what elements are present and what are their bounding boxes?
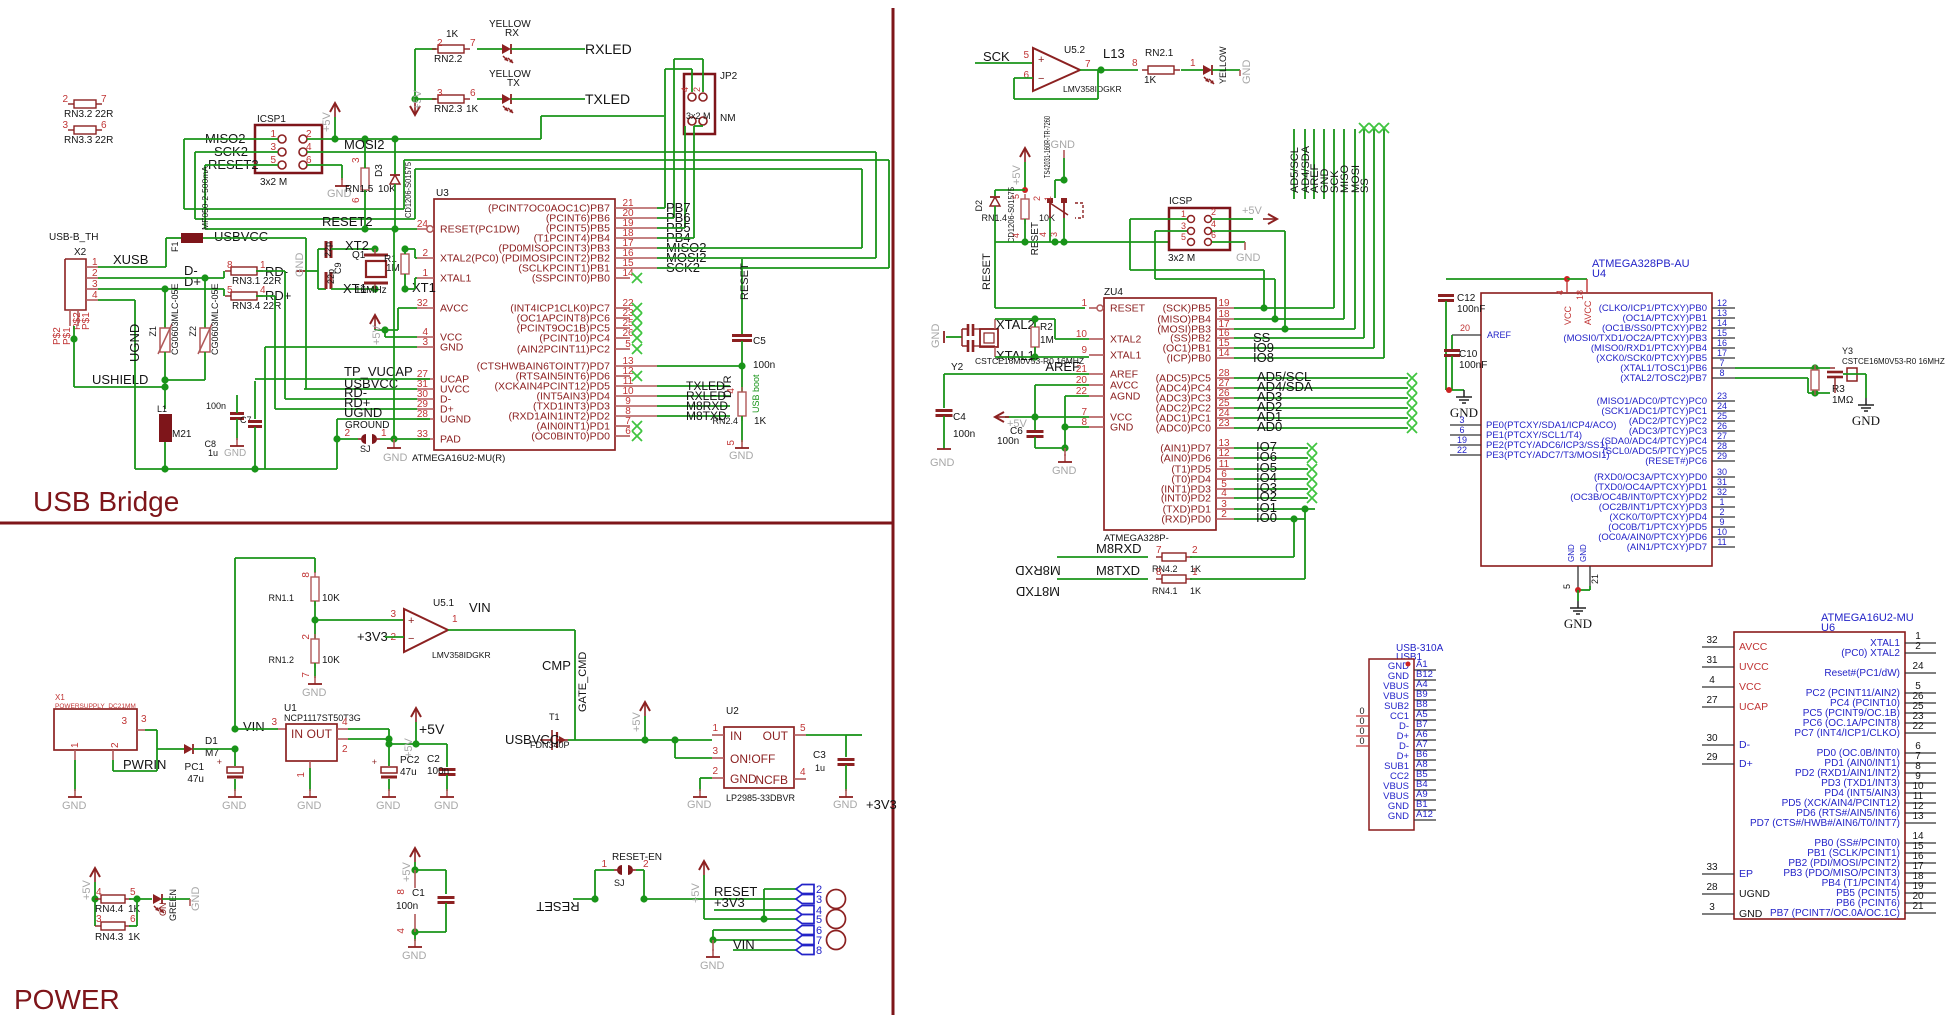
svg-text:RESET-EN: RESET-EN: [612, 852, 662, 863]
svg-text:4: 4: [96, 887, 102, 898]
svg-text:GND: GND: [376, 800, 401, 812]
svg-text:5: 5: [1562, 584, 1572, 589]
svg-text:2: 2: [1211, 207, 1216, 217]
svg-text:GND: GND: [1739, 908, 1763, 920]
svg-text:C2: C2: [427, 754, 440, 765]
svg-text:6: 6: [1023, 70, 1029, 81]
svg-text:GND: GND: [729, 450, 754, 462]
svg-text:GATE_CMD: GATE_CMD: [577, 652, 589, 712]
svg-text:SCK: SCK: [983, 49, 1010, 64]
svg-text:(AIN2PCINT11)PC2: (AIN2PCINT11)PC2: [517, 344, 610, 356]
svg-text:M8TXD: M8TXD: [1016, 584, 1060, 599]
svg-text:VIN: VIN: [243, 719, 265, 734]
svg-text:IO0: IO0: [1256, 510, 1277, 525]
svg-text:1: 1: [1192, 567, 1198, 578]
svg-text:8: 8: [227, 260, 233, 271]
svg-text:RN2.3: RN2.3: [434, 104, 463, 115]
svg-text:6: 6: [470, 88, 476, 99]
svg-text:23: 23: [1218, 418, 1230, 429]
svg-text:UGND: UGND: [344, 405, 382, 420]
svg-text:POWER: POWER: [14, 984, 120, 1015]
svg-text:100n: 100n: [396, 901, 418, 912]
svg-text:GND: GND: [930, 324, 942, 349]
svg-text:26: 26: [1717, 421, 1727, 431]
svg-text:RN2.4: RN2.4: [712, 416, 738, 426]
svg-text:(XTAL2/TOSC2)PB7: (XTAL2/TOSC2)PB7: [1620, 373, 1707, 384]
svg-text:10K: 10K: [322, 593, 340, 604]
svg-text:GND: GND: [297, 800, 322, 812]
svg-text:M8RXD: M8RXD: [1096, 541, 1142, 556]
svg-text:GROUND: GROUND: [345, 420, 389, 431]
svg-text:3: 3: [351, 157, 362, 163]
svg-text:2: 2: [342, 744, 348, 755]
svg-text:UGND: UGND: [440, 414, 471, 426]
svg-text:GND: GND: [1236, 252, 1261, 264]
svg-text:+3V3: +3V3: [714, 895, 745, 910]
svg-text:ATMEGA328PB-AU: ATMEGA328PB-AU: [1592, 258, 1690, 270]
svg-text:GND: GND: [402, 950, 427, 962]
svg-text:JP2: JP2: [720, 71, 738, 82]
svg-text:1: 1: [92, 257, 98, 268]
svg-text:4: 4: [342, 717, 348, 728]
svg-text:20: 20: [1460, 323, 1470, 333]
svg-text:+5V: +5V: [401, 861, 413, 882]
svg-text:16MHz: 16MHz: [355, 285, 387, 296]
svg-text:USHIELD: USHIELD: [92, 372, 148, 387]
svg-text:2: 2: [1221, 509, 1227, 520]
svg-text:ATMEGA16U2-MU(R): ATMEGA16U2-MU(R): [412, 453, 505, 464]
svg-text:GND: GND: [302, 687, 327, 699]
svg-text:100n: 100n: [953, 429, 975, 440]
svg-text:+5V: +5V: [81, 879, 93, 900]
svg-text:32: 32: [1717, 487, 1727, 497]
svg-text:+: +: [408, 615, 414, 627]
svg-text:3x2 M: 3x2 M: [686, 111, 711, 121]
svg-text:2: 2: [110, 742, 121, 748]
svg-text:1: 1: [601, 859, 607, 870]
svg-text:24: 24: [1912, 661, 1924, 672]
svg-text:AREF: AREF: [1487, 330, 1512, 340]
svg-text:OUT: OUT: [763, 729, 789, 743]
svg-text:16: 16: [1717, 338, 1727, 348]
svg-text:RESET(PC1DW): RESET(PC1DW): [440, 224, 520, 236]
svg-text:AD0: AD0: [1257, 419, 1282, 434]
svg-text:+3V3: +3V3: [357, 629, 388, 644]
svg-text:33: 33: [1706, 862, 1718, 873]
svg-text:7: 7: [1085, 59, 1091, 70]
svg-text:D+: D+: [1739, 758, 1753, 770]
svg-text:3x2 M: 3x2 M: [260, 177, 287, 188]
svg-text:T1: T1: [549, 712, 560, 722]
svg-text:PD7 (CTS#/HWB#/AIN6/T0/INT7): PD7 (CTS#/HWB#/AIN6/T0/INT7): [1750, 818, 1900, 829]
svg-text:−: −: [408, 633, 414, 645]
svg-text:GND: GND: [930, 457, 955, 469]
svg-text:TP_VUCAP: TP_VUCAP: [344, 364, 413, 379]
svg-text:C10: C10: [1459, 349, 1478, 360]
svg-text:100nF: 100nF: [1459, 360, 1487, 371]
svg-text:+: +: [1038, 54, 1044, 66]
svg-text:1u: 1u: [815, 763, 825, 773]
svg-text:1M: 1M: [386, 263, 400, 274]
svg-text:RN4.1: RN4.1: [1152, 586, 1178, 596]
svg-text:M8RXD: M8RXD: [1015, 563, 1061, 578]
svg-text:29: 29: [1717, 451, 1727, 461]
svg-text:−: −: [1038, 73, 1044, 85]
svg-text:2: 2: [437, 38, 443, 49]
svg-text:1: 1: [296, 772, 307, 778]
svg-text:4: 4: [726, 388, 737, 394]
svg-text:1: 1: [1190, 58, 1196, 69]
svg-text:U4: U4: [1592, 268, 1606, 280]
svg-text:5: 5: [1181, 232, 1186, 242]
svg-text:PC2: PC2: [400, 755, 420, 766]
svg-text:RN1.4: RN1.4: [981, 213, 1007, 223]
svg-text:1K: 1K: [446, 29, 459, 40]
svg-text:USB boot: USB boot: [751, 374, 761, 413]
svg-text:8: 8: [396, 889, 407, 895]
svg-text:28: 28: [1717, 441, 1727, 451]
svg-text:SJ: SJ: [614, 878, 625, 888]
svg-text:Y3: Y3: [1842, 346, 1853, 356]
svg-text:28: 28: [1706, 882, 1718, 893]
svg-text:RESET: RESET: [739, 263, 751, 300]
svg-text:4: 4: [1555, 290, 1565, 295]
svg-text:1: 1: [1081, 298, 1087, 309]
svg-text:DTR: DTR: [722, 375, 734, 398]
svg-text:RN3.3: RN3.3: [64, 135, 93, 146]
svg-text:M21: M21: [172, 429, 192, 440]
svg-text:RESET: RESET: [1110, 303, 1146, 315]
svg-text:NM: NM: [720, 113, 736, 124]
svg-text:RN3.4: RN3.4: [232, 301, 261, 312]
svg-text:GND: GND: [222, 800, 247, 812]
svg-text:C3: C3: [813, 750, 826, 761]
svg-text:AGND: AGND: [1110, 391, 1141, 403]
svg-text:0: 0: [1359, 736, 1364, 746]
svg-text:2: 2: [422, 248, 428, 259]
svg-text:32: 32: [417, 298, 429, 309]
svg-text:MF050-2-500mA: MF050-2-500mA: [200, 166, 210, 230]
svg-text:2: 2: [712, 766, 718, 777]
svg-text:3x2 M: 3x2 M: [1168, 253, 1195, 264]
svg-text:CSTCE16M0V53-R0 16MHZ: CSTCE16M0V53-R0 16MHZ: [1842, 357, 1945, 366]
svg-text:3: 3: [121, 716, 127, 727]
svg-text:3: 3: [1709, 902, 1715, 913]
svg-text:GND: GND: [1052, 465, 1077, 477]
svg-text:4: 4: [680, 87, 690, 92]
svg-text:8: 8: [301, 572, 312, 578]
svg-text:TX: TX: [507, 78, 520, 89]
svg-text:100n: 100n: [997, 436, 1019, 447]
svg-text:R2: R2: [1040, 322, 1053, 333]
svg-text:0: 0: [1359, 706, 1364, 716]
svg-text:4: 4: [1709, 675, 1715, 686]
svg-text:NCP1117ST50T3G: NCP1117ST50T3G: [284, 713, 361, 723]
svg-text:4: 4: [1221, 488, 1227, 499]
svg-text:(OC0BINT0)PD0: (OC0BINT0)PD0: [531, 431, 610, 443]
svg-text:22R: 22R: [95, 135, 113, 146]
svg-text:18: 18: [1575, 290, 1585, 300]
svg-text:+5V: +5V: [631, 711, 643, 732]
svg-text:8: 8: [816, 945, 822, 957]
svg-text:SS: SS: [1359, 178, 1371, 193]
svg-text:1: 1: [1181, 209, 1186, 219]
svg-text:4: 4: [800, 767, 806, 778]
svg-text:U2: U2: [726, 706, 739, 717]
svg-text:+: +: [372, 757, 377, 767]
svg-text:30: 30: [1706, 733, 1718, 744]
svg-text:XTAL2(PC0): XTAL2(PC0): [440, 253, 499, 265]
svg-text:22p: 22p: [323, 242, 333, 257]
svg-text:XTAL2: XTAL2: [1110, 334, 1141, 346]
svg-text:PE3(PTCY/ADC7/T3/MOSI1): PE3(PTCY/ADC7/T3/MOSI1): [1486, 450, 1610, 461]
svg-text:12: 12: [1717, 298, 1727, 308]
svg-text:ZU4: ZU4: [1104, 287, 1123, 298]
svg-text:U5.1: U5.1: [433, 598, 455, 609]
svg-text:2: 2: [92, 268, 98, 279]
svg-text:CG0603MLC-05E: CG0603MLC-05E: [170, 283, 180, 355]
svg-text:GND: GND: [383, 452, 408, 464]
svg-text:3: 3: [62, 120, 68, 131]
svg-text:A12: A12: [1416, 809, 1433, 820]
svg-text:(RXD)PD0: (RXD)PD0: [1161, 514, 1211, 526]
svg-text:3: 3: [422, 337, 428, 348]
svg-text:RN1.5: RN1.5: [345, 184, 374, 195]
svg-text:C12: C12: [1457, 293, 1476, 304]
svg-text:D2: D2: [974, 200, 984, 212]
svg-text:C9: C9: [333, 262, 343, 274]
svg-text:IO8: IO8: [1253, 350, 1274, 365]
svg-text:RN2.2: RN2.2: [434, 54, 463, 65]
svg-text:F1: F1: [170, 241, 180, 252]
svg-text:1: 1: [1719, 497, 1724, 507]
svg-text:8: 8: [1719, 368, 1724, 378]
svg-text:GND: GND: [440, 342, 464, 354]
svg-text:U5.2: U5.2: [1064, 45, 1086, 56]
svg-text:GND: GND: [190, 887, 202, 912]
svg-text:(ICP)PB0: (ICP)PB0: [1167, 353, 1212, 365]
svg-text:12: 12: [1218, 448, 1230, 459]
svg-text:YELLOW: YELLOW: [1218, 46, 1228, 84]
svg-text:10K: 10K: [378, 184, 396, 195]
svg-text:3: 3: [390, 609, 396, 620]
svg-text:D-: D-: [1739, 739, 1751, 751]
svg-text:RN4.3: RN4.3: [95, 932, 124, 943]
svg-text:5: 5: [227, 285, 233, 296]
svg-text:P$1: P$1: [81, 312, 92, 330]
svg-text:PC1: PC1: [185, 762, 205, 773]
svg-text:22: 22: [1457, 445, 1467, 455]
svg-text:2: 2: [62, 94, 68, 105]
svg-text:7: 7: [101, 94, 107, 105]
svg-text:25: 25: [1717, 411, 1727, 421]
svg-text:30: 30: [1717, 467, 1727, 477]
svg-text:4: 4: [396, 928, 407, 934]
svg-text:TS42031-160R-TR-7260: TS42031-160R-TR-7260: [1043, 116, 1052, 178]
svg-text:0: 0: [1359, 726, 1364, 736]
svg-text:+: +: [217, 757, 222, 767]
svg-text:24: 24: [1717, 401, 1727, 411]
svg-text:22: 22: [1912, 721, 1924, 732]
svg-text:AVCC: AVCC: [440, 303, 469, 315]
svg-text:GND: GND: [1567, 544, 1576, 562]
svg-text:CMP: CMP: [542, 658, 571, 673]
svg-text:5: 5: [1023, 50, 1029, 61]
svg-text:14: 14: [1717, 318, 1727, 328]
svg-text:GND: GND: [1110, 422, 1134, 434]
svg-text:RX: RX: [505, 28, 519, 39]
svg-text:100n: 100n: [206, 401, 226, 411]
svg-text:GND: GND: [62, 800, 87, 812]
svg-text:GND: GND: [833, 799, 858, 811]
svg-text:3: 3: [271, 717, 277, 728]
svg-text:100n: 100n: [427, 766, 449, 777]
svg-text:2: 2: [301, 634, 312, 640]
svg-text:3: 3: [712, 746, 718, 757]
svg-text:6: 6: [1459, 425, 1464, 435]
svg-text:4: 4: [1211, 219, 1216, 229]
svg-text:ICSP: ICSP: [1169, 196, 1193, 207]
svg-text:D1: D1: [205, 736, 218, 747]
svg-text:27: 27: [1706, 695, 1718, 706]
svg-text:15: 15: [1717, 328, 1727, 338]
svg-text:ON!OFF: ON!OFF: [730, 752, 775, 766]
svg-text:GND: GND: [687, 799, 712, 811]
svg-text:RN3.2: RN3.2: [64, 109, 93, 120]
svg-text:GND: GND: [434, 800, 459, 812]
svg-text:USB-B_TH: USB-B_TH: [49, 232, 98, 243]
svg-text:13: 13: [1912, 811, 1924, 822]
svg-text:(PC0) XTAL2: (PC0) XTAL2: [1841, 648, 1900, 659]
svg-text:XUSB: XUSB: [113, 252, 148, 267]
svg-text:PWRIN: PWRIN: [123, 757, 166, 772]
svg-text:23: 23: [1717, 391, 1727, 401]
svg-text:1MΩ: 1MΩ: [1832, 395, 1854, 406]
svg-text:13: 13: [1717, 308, 1727, 318]
svg-text:L1: L1: [157, 404, 167, 414]
svg-text:USB Bridge: USB Bridge: [33, 486, 179, 517]
svg-text:LMV358IDGKR: LMV358IDGKR: [1063, 84, 1122, 94]
svg-text:2: 2: [1032, 196, 1042, 201]
svg-text:AVCC: AVCC: [1739, 641, 1768, 653]
svg-text:19: 19: [1457, 435, 1467, 445]
svg-text:1K: 1K: [128, 932, 141, 943]
svg-text:VIN: VIN: [469, 600, 491, 615]
svg-text:GND: GND: [1051, 139, 1076, 151]
svg-text:(RESET#)PC6: (RESET#)PC6: [1645, 456, 1707, 467]
svg-text:1: 1: [70, 742, 81, 748]
svg-text:Reset#(PC1/dW): Reset#(PC1/dW): [1824, 668, 1900, 679]
svg-text:LP2985-33DBVR: LP2985-33DBVR: [726, 793, 796, 803]
svg-text:+5V: +5V: [1011, 164, 1023, 185]
svg-text:1K: 1K: [754, 416, 767, 427]
svg-text:21: 21: [1912, 901, 1924, 912]
svg-text:100n: 100n: [753, 360, 775, 371]
svg-text:RN2.1: RN2.1: [1145, 48, 1174, 59]
svg-text:EP: EP: [1739, 868, 1753, 880]
svg-text:6: 6: [130, 914, 136, 925]
svg-text:UGND: UGND: [127, 324, 142, 362]
svg-text:+5V: +5V: [1242, 205, 1263, 217]
svg-text:NCFB: NCFB: [755, 773, 788, 787]
svg-text:1: 1: [422, 268, 428, 279]
svg-text:USBVCC: USBVCC: [214, 229, 268, 244]
svg-text:UCAP: UCAP: [1739, 701, 1768, 713]
svg-text:1u: 1u: [208, 448, 218, 458]
svg-text:8: 8: [1132, 58, 1138, 69]
svg-text:GND: GND: [1579, 544, 1588, 562]
svg-text:UGND: UGND: [1739, 888, 1770, 900]
svg-text:+5V: +5V: [371, 324, 383, 345]
svg-text:M8TXD: M8TXD: [1096, 563, 1140, 578]
svg-text:29: 29: [1706, 752, 1718, 763]
svg-text:AVCC: AVCC: [1583, 300, 1593, 325]
svg-text:10: 10: [1717, 527, 1727, 537]
svg-text:GND: GND: [224, 448, 246, 459]
svg-text:VCC: VCC: [1563, 305, 1573, 325]
svg-text:+3V3: +3V3: [866, 797, 897, 812]
svg-text:7: 7: [470, 38, 476, 49]
svg-text:GND: GND: [1241, 60, 1253, 85]
svg-text:ON: ON: [158, 903, 168, 917]
svg-text:3: 3: [96, 914, 102, 925]
svg-text:2: 2: [1192, 545, 1198, 556]
svg-text:8: 8: [1156, 567, 1162, 578]
svg-text:+5V: +5V: [321, 111, 333, 132]
svg-text:C4: C4: [953, 412, 966, 423]
svg-text:PAD: PAD: [440, 434, 461, 446]
svg-text:6: 6: [625, 426, 631, 437]
svg-text:+5V: +5V: [690, 882, 702, 903]
svg-text:6: 6: [351, 197, 362, 203]
svg-text:10K: 10K: [322, 655, 340, 666]
svg-text:100nF: 100nF: [1457, 304, 1485, 315]
svg-text:47u: 47u: [400, 767, 417, 778]
svg-text:IN: IN: [730, 729, 742, 743]
svg-text:IN: IN: [291, 727, 303, 741]
svg-text:2: 2: [1915, 641, 1921, 652]
svg-text:RESET: RESET: [536, 899, 579, 914]
svg-text:PB7 (PCINT7/OC.0A/OC.1C): PB7 (PCINT7/OC.0A/OC.1C): [1770, 908, 1900, 919]
svg-text:SJ: SJ: [360, 444, 371, 454]
svg-text:GND: GND: [700, 960, 725, 972]
svg-text:10K: 10K: [1039, 213, 1055, 223]
svg-text:3: 3: [141, 714, 147, 725]
svg-text:PC7 (INT4/ICP1/CLKO): PC7 (INT4/ICP1/CLKO): [1794, 728, 1900, 739]
svg-text:ICSP1: ICSP1: [257, 114, 286, 125]
svg-text:CG0603MLC-05E: CG0603MLC-05E: [210, 283, 220, 355]
svg-text:D+: D+: [184, 274, 201, 289]
svg-text:RN3.1: RN3.1: [232, 276, 261, 287]
svg-text:21: 21: [1590, 574, 1600, 584]
svg-text:GND: GND: [730, 772, 757, 786]
svg-text:RN1.2: RN1.2: [268, 655, 294, 665]
svg-text:0: 0: [1359, 716, 1364, 726]
svg-text:11: 11: [1717, 537, 1726, 547]
svg-text:3: 3: [1459, 415, 1464, 425]
svg-text:4: 4: [92, 290, 98, 301]
svg-text:RN1.1: RN1.1: [268, 593, 294, 603]
svg-text:GND: GND: [1852, 413, 1880, 428]
svg-text:9: 9: [1719, 517, 1724, 527]
svg-text:TXLED: TXLED: [585, 91, 630, 107]
svg-text:D3: D3: [374, 164, 385, 177]
svg-text:+5V: +5V: [419, 721, 445, 737]
svg-text:3: 3: [437, 88, 443, 99]
svg-text:5: 5: [1011, 194, 1021, 199]
svg-text:7: 7: [301, 672, 312, 678]
svg-text:GND: GND: [294, 253, 306, 278]
